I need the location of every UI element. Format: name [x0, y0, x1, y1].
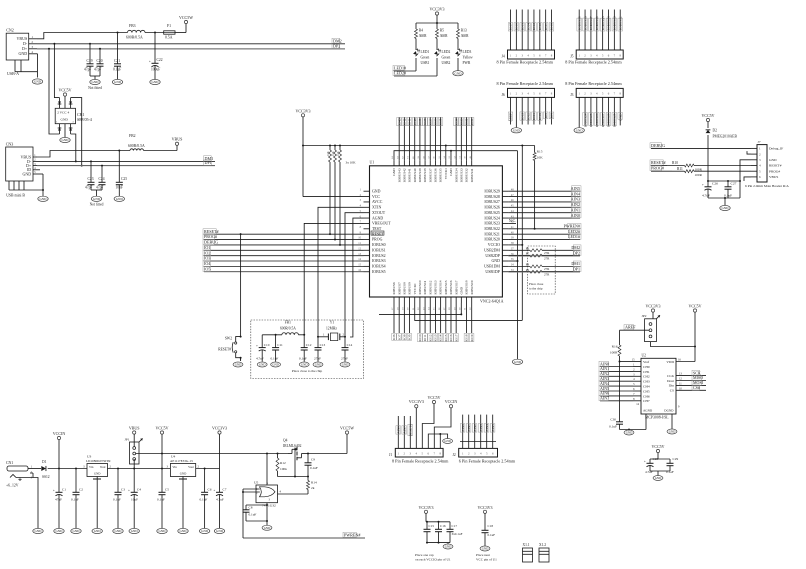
ground C22 — [150, 79, 160, 84]
svg-text:R16: R16 — [612, 345, 618, 349]
svg-text:GND: GND — [301, 363, 308, 367]
svg-text:R11: R11 — [677, 167, 683, 171]
wire AGND down — [350, 218, 364, 337]
resistor R12 100k — [276, 454, 287, 477]
svg-text:IOBUS33: IOBUS33 — [459, 168, 463, 182]
svg-text:IO8: IO8 — [402, 334, 406, 340]
capacitor C22 100uF — [149, 33, 163, 80]
svg-text:CH3: CH3 — [643, 380, 650, 384]
svg-text:J7: J7 — [758, 140, 761, 144]
svg-text:AIN4: AIN4 — [485, 424, 489, 432]
svg-text:J3: J3 — [570, 93, 573, 97]
svg-text:FB2: FB2 — [129, 134, 136, 138]
svg-text:IO6: IO6 — [392, 334, 396, 340]
svg-text:GND: GND — [92, 80, 100, 84]
svg-text:IO17: IO17 — [509, 23, 513, 30]
svg-text:GND: GND — [131, 529, 139, 533]
power VCC3V3 vccio caps — [418, 505, 433, 522]
svg-text:8 Pin Female Receptacle 2.54mm: 8 Pin Female Receptacle 2.54mm — [392, 459, 449, 464]
svg-text:J2: J2 — [453, 453, 456, 457]
svg-text:C24: C24 — [99, 177, 105, 181]
svg-text:IO16: IO16 — [515, 23, 519, 30]
wire XTOUT to crystal — [345, 213, 364, 333]
svg-text:X1.2: X1.2 — [539, 543, 546, 547]
svg-text:C13: C13 — [320, 343, 326, 347]
svg-text:IOBUS34: IOBUS34 — [454, 168, 458, 182]
svg-text:IOBUS26: IOBUS26 — [484, 206, 500, 210]
svg-text:GND: GND — [115, 529, 123, 533]
power VCCIN J1 — [434, 399, 457, 448]
svg-text:+6..12V: +6..12V — [6, 484, 19, 488]
svg-text:IOBUS16: IOBUS16 — [449, 280, 453, 294]
svg-text:47uF: 47uF — [55, 498, 62, 502]
net label DP2 — [332, 43, 340, 48]
svg-text:IOBUS2: IOBUS2 — [372, 254, 386, 258]
svg-text:VCCIO: VCCIO — [444, 168, 448, 179]
svg-text:GND: GND — [722, 206, 730, 210]
ground C4 — [129, 498, 139, 534]
svg-text:IO43: IO43 — [397, 118, 401, 125]
wire VCC to U1 pin2 — [303, 146, 364, 197]
ground debug — [720, 205, 730, 210]
svg-text:GND: GND — [23, 171, 32, 176]
svg-text:LED2#: LED2# — [568, 229, 580, 234]
resistor R7 27R — [508, 250, 581, 260]
ground U2 agnd — [624, 430, 634, 435]
power VCC5V adc — [688, 304, 701, 362]
net label DEBUG right — [650, 143, 751, 149]
resistor R16 100R — [610, 330, 621, 361]
wire J7 pin2 stub — [747, 151, 751, 154]
svg-text:LED2: LED2 — [442, 50, 451, 54]
power VCC5V debug — [701, 113, 714, 128]
svg-text:GND: GND — [482, 547, 489, 551]
svg-text:Q4: Q4 — [283, 439, 288, 443]
svg-text:to the chip: to the chip — [529, 287, 543, 291]
svg-text:USB2: USB2 — [442, 61, 451, 65]
svg-text:RESET#: RESET# — [651, 160, 666, 165]
svg-text:U5: U5 — [254, 481, 259, 485]
svg-text:GND: GND — [626, 431, 633, 435]
capacitor C30 0.1uF — [609, 362, 623, 430]
svg-text:IOBUS19: IOBUS19 — [470, 280, 474, 294]
svg-text:C19: C19 — [87, 59, 93, 63]
power VCC5V for C28 C29 — [650, 444, 670, 459]
svg-text:R4: R4 — [419, 29, 423, 33]
svg-text:8 Pin Female Receptacle 2.54mm: 8 Pin Female Receptacle 2.54mm — [565, 60, 622, 65]
wires J2 AIN0-AIN5 — [460, 415, 496, 449]
svg-text:C16: C16 — [440, 524, 446, 528]
svg-text:N.C.: N.C. — [509, 219, 516, 223]
svg-text:IOBUS24: IOBUS24 — [484, 216, 500, 220]
svg-text:DP2: DP2 — [333, 43, 340, 48]
svg-text:IOBUS37: IOBUS37 — [428, 168, 432, 182]
svg-text:100uF: 100uF — [151, 68, 160, 72]
svg-text:VBUS: VBUS — [769, 175, 778, 179]
wires J4 pins up — [508, 10, 554, 51]
svg-text:GND: GND — [264, 526, 271, 530]
fuse F1 — [164, 24, 175, 40]
svg-text:IOBUS7: IOBUS7 — [397, 282, 401, 295]
svg-text:27R: 27R — [544, 256, 550, 260]
ground C23 C24 not fitted — [90, 190, 104, 207]
svg-text:USB2DP: USB2DP — [485, 254, 500, 258]
wires U2 SPI signals — [667, 370, 706, 392]
wire VREGOUT to C12 — [304, 223, 363, 344]
gate U5 74V1G32 — [243, 454, 308, 508]
svg-text:C9: C9 — [311, 458, 315, 462]
svg-text:AIN1: AIN1 — [467, 424, 471, 432]
wire LED rail — [416, 23, 458, 29]
wire VCCIO top pin to 3V3 bus — [445, 146, 447, 161]
capacitor C25 10nF — [116, 151, 128, 197]
svg-text:0.1uF: 0.1uF — [200, 498, 208, 502]
svg-text:J1: J1 — [389, 453, 392, 457]
resistor R5 360R — [436, 29, 449, 39]
wire J7 pin3 gnd — [740, 160, 751, 198]
svg-text:GND: GND — [514, 360, 522, 364]
svg-text:CN1: CN1 — [6, 461, 13, 465]
svg-text:IOBUS15: IOBUS15 — [444, 280, 448, 294]
ground C5 — [157, 498, 167, 534]
power VBUS label — [144, 137, 183, 151]
svg-text:27R: 27R — [544, 273, 550, 277]
svg-text:C5: C5 — [165, 488, 169, 492]
svg-text:VCC5W: VCC5W — [179, 15, 193, 20]
svg-text:C1: C1 — [62, 488, 66, 492]
svg-text:IOBUS21: IOBUS21 — [484, 232, 500, 236]
power VCC3V3 above chip — [295, 108, 310, 146]
wire debug gnd rail — [708, 197, 740, 205]
svg-text:VCC3V3: VCC3V3 — [429, 7, 444, 12]
svg-text:27pF: 27pF — [341, 357, 348, 361]
svg-text:GND: GND — [152, 80, 160, 84]
svg-text:C12: C12 — [306, 343, 312, 347]
svg-text:VCC3V3: VCC3V3 — [418, 505, 433, 510]
resistor R10 100R — [667, 161, 751, 171]
svg-text:J5: J5 — [570, 55, 573, 59]
svg-text:IOBUS11: IOBUS11 — [423, 280, 427, 294]
svg-text:PMEG2010AEB: PMEG2010AEB — [713, 135, 738, 139]
capacitor C11 0.1uF — [271, 335, 284, 362]
svg-text:R5: R5 — [440, 29, 444, 33]
ground CR1 — [60, 124, 70, 143]
svg-text:GND: GND — [235, 363, 242, 367]
dashed box place close to chip — [528, 246, 556, 294]
svg-text:XTIN: XTIN — [372, 206, 381, 210]
svg-text:C29: C29 — [673, 457, 679, 461]
svg-text:IOBUS36: IOBUS36 — [434, 168, 438, 182]
svg-text:IOBUS35: IOBUS35 — [601, 16, 605, 30]
capacitor C28 4.7uF — [644, 457, 659, 474]
power VBUS JP1 — [129, 426, 140, 447]
capacitor C29 0.1uF — [666, 457, 678, 474]
svg-text:GND: GND — [372, 189, 381, 193]
svg-text:IOBUS39: IOBUS39 — [577, 16, 581, 30]
ground C12 — [299, 362, 309, 367]
svg-text:10nF: 10nF — [116, 186, 123, 190]
net label PWREN# bottom — [343, 532, 360, 537]
svg-text:IO14: IO14 — [439, 334, 443, 341]
svg-text:IRLML6402: IRLML6402 — [283, 444, 302, 448]
svg-text:VCC3V3: VCC3V3 — [295, 108, 310, 113]
wire JP2 pin3 to 5V — [651, 342, 696, 347]
svg-text:360R: 360R — [461, 34, 469, 38]
ground C28 C29 — [650, 471, 670, 480]
svg-text:IO3: IO3 — [204, 256, 210, 261]
svg-text:AIN2: AIN2 — [473, 424, 477, 432]
wire FB3 to F1 — [145, 32, 164, 34]
svg-text:GND: GND — [455, 71, 463, 75]
svg-text:100R: 100R — [610, 351, 618, 355]
ground C25 — [114, 196, 124, 201]
svg-text:GND: GND — [655, 476, 662, 480]
svg-text:Not fitted: Not fitted — [88, 86, 102, 90]
svg-text:USB2DM: USB2DM — [484, 248, 500, 252]
ground C2 — [71, 498, 81, 534]
svg-text:IO15: IO15 — [444, 334, 448, 341]
svg-text:DP1: DP1 — [573, 266, 580, 271]
svg-text:IO32: IO32 — [465, 118, 469, 125]
svg-text:IO14: IO14 — [526, 23, 530, 30]
svg-text:IO19: IO19 — [470, 334, 474, 341]
ground C19 C20 not fitted — [88, 73, 102, 90]
svg-text:GND: GND — [61, 118, 69, 122]
svg-text:U1: U1 — [370, 161, 375, 165]
ferrite bead FB1 — [262, 321, 305, 336]
svg-text:GND: GND — [40, 197, 48, 201]
svg-text:0.1uF: 0.1uF — [113, 68, 121, 72]
svg-text:VBUS: VBUS — [172, 137, 183, 142]
svg-text:IOBUS9: IOBUS9 — [408, 282, 412, 295]
power VCC5W top — [175, 15, 193, 33]
svg-text:IO7: IO7 — [397, 334, 401, 340]
svg-text:CH6: CH6 — [643, 394, 650, 398]
svg-text:GND: GND — [449, 168, 453, 176]
svg-text:IOBUS4: IOBUS4 — [372, 265, 386, 269]
svg-text:C2: C2 — [79, 488, 83, 492]
svg-text:Debug_IF: Debug_IF — [769, 147, 783, 151]
IC U2 MCP3008 — [641, 354, 676, 420]
svg-text:GND: GND — [392, 168, 396, 176]
svg-text:DEBUG: DEBUG — [651, 143, 665, 148]
svg-text:4.7uF: 4.7uF — [256, 357, 264, 361]
diode D1 SS12 — [41, 460, 49, 479]
power VCC3V3 rail — [212, 426, 227, 469]
svg-text:IOBUS10: IOBUS10 — [418, 280, 422, 294]
wire U2 AGND — [620, 414, 647, 431]
svg-text:VNC2-64Q1A: VNC2-64Q1A — [480, 299, 504, 304]
svg-text:VBUS: VBUS — [129, 426, 140, 431]
svg-text:IO11: IO11 — [544, 23, 548, 30]
svg-text:MCP3008-I/SL: MCP3008-I/SL — [645, 416, 669, 420]
svg-text:C21: C21 — [114, 59, 120, 63]
capacitor C27 0.1uF — [724, 181, 737, 198]
svg-text:47pF: 47pF — [94, 68, 101, 72]
capacitor C9 0.1uF — [305, 454, 318, 477]
svg-text:GND: GND — [19, 51, 28, 56]
svg-text:IO12: IO12 — [526, 113, 530, 120]
connector CN3 USB mini B — [6, 142, 43, 198]
svg-text:IOBUS39: IOBUS39 — [418, 168, 422, 182]
svg-text:C26: C26 — [712, 182, 718, 186]
svg-text:IO37: IO37 — [428, 118, 432, 125]
svg-text:VDD: VDD — [666, 360, 674, 364]
svg-text:J6: J6 — [502, 93, 505, 97]
resistor R8 27R — [508, 261, 581, 271]
svg-text:Y1: Y1 — [330, 321, 335, 325]
wire gate row — [278, 476, 310, 478]
svg-text:VREGOUT: VREGOUT — [372, 222, 391, 226]
label 3x 10K — [346, 161, 357, 165]
power VCC5V J1 — [422, 395, 440, 448]
svg-text:VCC3V3: VCC3V3 — [477, 505, 492, 510]
svg-text:GND: GND — [34, 80, 42, 84]
svg-text:CLK: CLK — [667, 374, 674, 378]
capacitor C14 27pF — [341, 333, 353, 362]
capacitor C18 0.1uF — [482, 524, 496, 546]
capacitor C5 0.1uF — [157, 469, 169, 502]
svg-text:IOBUS17: IOBUS17 — [454, 280, 458, 294]
svg-text:IOBUS18: IOBUS18 — [465, 280, 469, 294]
wires U1 top pins to labels — [397, 117, 474, 160]
svg-text:R13: R13 — [461, 29, 467, 33]
svg-text:AIN1: AIN1 — [571, 207, 580, 212]
net label DM2 — [332, 38, 342, 43]
svg-text:C30: C30 — [610, 418, 616, 422]
svg-text:IOBUS42: IOBUS42 — [402, 168, 406, 182]
svg-text:Place one cap: Place one cap — [415, 553, 434, 557]
svg-text:3x 10K: 3x 10K — [346, 161, 357, 165]
svg-text:C7: C7 — [223, 488, 227, 492]
svg-text:U3: U3 — [87, 455, 92, 459]
power VCC5V rail — [155, 426, 168, 469]
ferrite bead FB3 — [126, 24, 145, 40]
svg-text:SW2: SW2 — [225, 337, 232, 341]
svg-text:IOBUS3: IOBUS3 — [372, 259, 386, 263]
svg-text:CH4: CH4 — [643, 385, 650, 389]
wire DM2 from CN2 D- — [37, 43, 345, 45]
svg-text:CH0: CH0 — [643, 365, 650, 369]
svg-text:Place near: Place near — [476, 553, 491, 557]
svg-text:VCC5V: VCC5V — [701, 113, 714, 118]
svg-text:IO39: IO39 — [418, 118, 422, 125]
svg-text:VCC pin of U1: VCC pin of U1 — [476, 558, 497, 562]
svg-text:PWREN#: PWREN# — [564, 223, 580, 228]
svg-text:GND: GND — [159, 529, 167, 533]
svg-text:GND: GND — [35, 529, 43, 533]
svg-text:LED3: LED3 — [463, 50, 472, 54]
svg-text:IO13: IO13 — [434, 334, 438, 341]
svg-text:USB1DM: USB1DM — [484, 265, 500, 269]
svg-text:RESET#: RESET# — [408, 424, 412, 436]
svg-text:GND: GND — [618, 113, 622, 121]
svg-text:0.1uF: 0.1uF — [299, 357, 307, 361]
U1 left pins 1-16 — [358, 188, 391, 274]
svg-text:IOBUS5: IOBUS5 — [372, 270, 386, 274]
svg-text:C23: C23 — [88, 177, 94, 181]
svg-text:VCC5V: VCC5V — [688, 304, 701, 309]
wire debug vbus node — [707, 177, 751, 182]
svg-text:LED1#: LED1# — [568, 234, 580, 239]
svg-text:10K: 10K — [337, 151, 340, 156]
svg-text:74V1G32: 74V1G32 — [262, 504, 276, 508]
svg-text:Vin: Vin — [89, 465, 94, 469]
power VCC3V3 JP2 — [645, 304, 660, 319]
connector J3 8 pin receptacle — [565, 81, 623, 98]
svg-text:GND: GND — [491, 259, 500, 263]
TVS diode array CR1 SRV05-4 — [55, 98, 92, 134]
svg-text:DGND: DGND — [664, 409, 674, 413]
capacitor C10 4.7uF — [256, 335, 270, 362]
svg-text:IOBUS32: IOBUS32 — [465, 168, 469, 182]
svg-text:CH1: CH1 — [643, 370, 650, 374]
svg-text:IO12: IO12 — [428, 334, 432, 341]
svg-text:FB3: FB3 — [129, 24, 136, 28]
svg-text:IOBUS32: IOBUS32 — [618, 16, 622, 30]
svg-text:Yellow: Yellow — [463, 56, 474, 60]
svg-text:IOBUS29: IOBUS29 — [613, 113, 617, 127]
svg-text:0.1uF: 0.1uF — [71, 498, 79, 502]
resistor R15 10K — [533, 146, 543, 229]
jumper JP1 — [125, 438, 143, 469]
ground CN2 — [32, 54, 42, 84]
jumper JP2 — [642, 314, 661, 342]
resistor R11 100R — [672, 167, 751, 177]
label place close to the chip — [529, 282, 544, 291]
svg-text:Not fitted: Not fitted — [90, 203, 104, 207]
svg-text:AVCC: AVCC — [372, 200, 383, 204]
svg-text:AIN6: AIN6 — [396, 426, 400, 434]
svg-text:AIN5: AIN5 — [491, 424, 495, 432]
svg-text:IO17: IO17 — [454, 334, 458, 341]
svg-text:USB1: USB1 — [421, 61, 430, 65]
svg-text:600R/0.5A: 600R/0.5A — [128, 144, 145, 148]
svg-text:IOBUS27: IOBUS27 — [601, 113, 605, 127]
ground C11 — [271, 362, 281, 367]
capacitor C15 — [424, 522, 435, 543]
wire U5 inputs to PWREN# — [242, 489, 365, 538]
svg-text:IO41: IO41 — [408, 118, 412, 125]
wire VBUS from CN2 — [37, 33, 128, 39]
capacitor C2 0.1uF — [71, 469, 83, 502]
svg-text:+: + — [53, 489, 55, 493]
connector J6 8 pin receptacle — [497, 81, 555, 98]
svg-text:+: + — [149, 60, 151, 64]
wires right net labels from U1 — [508, 186, 581, 240]
note place near — [476, 553, 497, 562]
ground U5 — [262, 525, 272, 530]
svg-text:27pF: 27pF — [314, 357, 321, 361]
U1 bottom pins 17-32 — [391, 280, 474, 310]
switch SW2 reset — [218, 233, 241, 360]
capacitor C8 0.1uF — [243, 504, 269, 517]
wire DM1 from CN3 D- — [37, 160, 215, 162]
svg-text:R10: R10 — [672, 161, 678, 165]
svg-text:IO2: IO2 — [204, 250, 210, 255]
svg-text:IOBUS38: IOBUS38 — [423, 168, 427, 182]
svg-text:IOBUS29: IOBUS29 — [484, 189, 500, 193]
svg-text:6 Pin Female Receptacle 2.54mm: 6 Pin Female Receptacle 2.54mm — [459, 459, 516, 464]
wire CR1 pin to CN2 D+ — [49, 49, 60, 134]
capacitor C19 47pF — [84, 44, 94, 73]
ground U2 dgnd — [667, 429, 677, 434]
op-amp U1 outline VNC2-64Q1A — [370, 161, 504, 304]
svg-text:+: + — [644, 460, 646, 464]
svg-text:SRV05-4: SRV05-4 — [77, 117, 92, 122]
svg-text:on each VCCIO pin of U1: on each VCCIO pin of U1 — [415, 558, 451, 562]
net label DP1 — [204, 160, 212, 165]
